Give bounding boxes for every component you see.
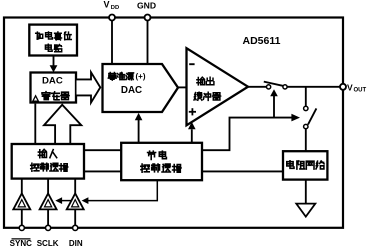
svg-text:DAC: DAC [121,85,142,96]
pin DIN [73,225,78,230]
svg-text:DIN: DIN [69,239,83,248]
svg-text:V: V [104,0,110,9]
pin VDD [104,0,120,21]
wire+arrow: power-down logic to DIN buffer [82,180,158,204]
pin GND [137,1,156,21]
op-amp U4: output buffer (shu chu / huan chong qi) [187,48,249,125]
svg-text:OUT: OUT [354,88,367,94]
block U1: power-on reset circuit (jia dian fu wei / dian lu) [29,25,77,56]
ground symbol [296,204,315,217]
arrow: power-down control to DAC [135,113,143,143]
bus hollow arrow: input control logic to DAC register [44,105,81,144]
wire VDD to DAC [111,21,113,64]
svg-text:DD: DD [111,5,119,11]
block U2: DAC register (DAC ji cun qi) [31,73,77,103]
svg-text:V: V [347,82,353,92]
wire: DAC to output buffer [177,86,187,88]
input buffer DIN (schmitt trigger) [67,193,84,209]
svg-text:DAC: DAC [42,75,63,86]
arrow: POR to DAC register [50,56,58,72]
pin SYNC [19,225,24,230]
switch SW1 (output switch) [264,82,287,89]
svg-text:(+): (+) [136,72,146,81]
arrow: power-down control to SW1 [270,89,278,117]
label SYNC (active low) [10,239,32,248]
wire: DIN buffer to pin [74,209,76,225]
pin SCLK [46,225,51,230]
block U5: resistor network (dian zu wang luo) [283,151,327,179]
wire: power-down control riser to switches [202,118,292,151]
block U7: input control logic (shu ru / kong zhi luo ji) [12,144,84,179]
wire: input logic to SYNC buffer [21,179,23,194]
block U6: power-down control logic (jie dian / kong zhi luo ji) [121,143,202,180]
svg-text:SYNC: SYNC [10,239,32,248]
wire: VOUT node down to SW2 [305,87,307,106]
block U3: reference (+) DAC pentagon [103,64,179,112]
arrow: DIN buffer to SCLK buffer (power-down) [55,197,71,204]
wire: SCLK buffer to pin [47,209,49,225]
arrow head: to SW2 [291,114,300,122]
wire: power-down control to resistor network [202,170,283,172]
svg-text:SCLK: SCLK [37,239,59,248]
wire: input logic to SCLK buffer [47,179,49,194]
pin VOUT [340,82,367,93]
input buffer SYNC (schmitt trigger) [13,193,30,209]
svg-text:AD5611: AD5611 [243,35,281,47]
wire: input logic to power-down logic (lower) [84,170,121,172]
wire GND to DAC [147,21,149,64]
wire: SYNC buffer to pin [21,209,23,225]
wire: resistor network to ground [305,180,307,204]
wire: input logic to power-down logic (upper) [84,149,121,151]
svg-text:GND: GND [137,1,156,11]
switch SW2 (resistor network switch) [304,106,317,129]
wire: op-amp output to switch SW1 [248,86,266,88]
wire: input logic to DIN buffer [74,179,76,194]
chip outline AD5611 [4,18,343,228]
wire: input control logic to DAC register clock [34,104,36,144]
arrow: power-down control to op-amp non-inverting input [188,122,196,143]
bus block arrow: DAC register to DAC [77,72,101,102]
wire: SW2 to resistor network [305,129,307,151]
input buffer SCLK (schmitt trigger) [40,193,57,209]
clock input triangle on DAC register [33,96,39,101]
wire: SW1 to VOUT pin [287,86,340,88]
